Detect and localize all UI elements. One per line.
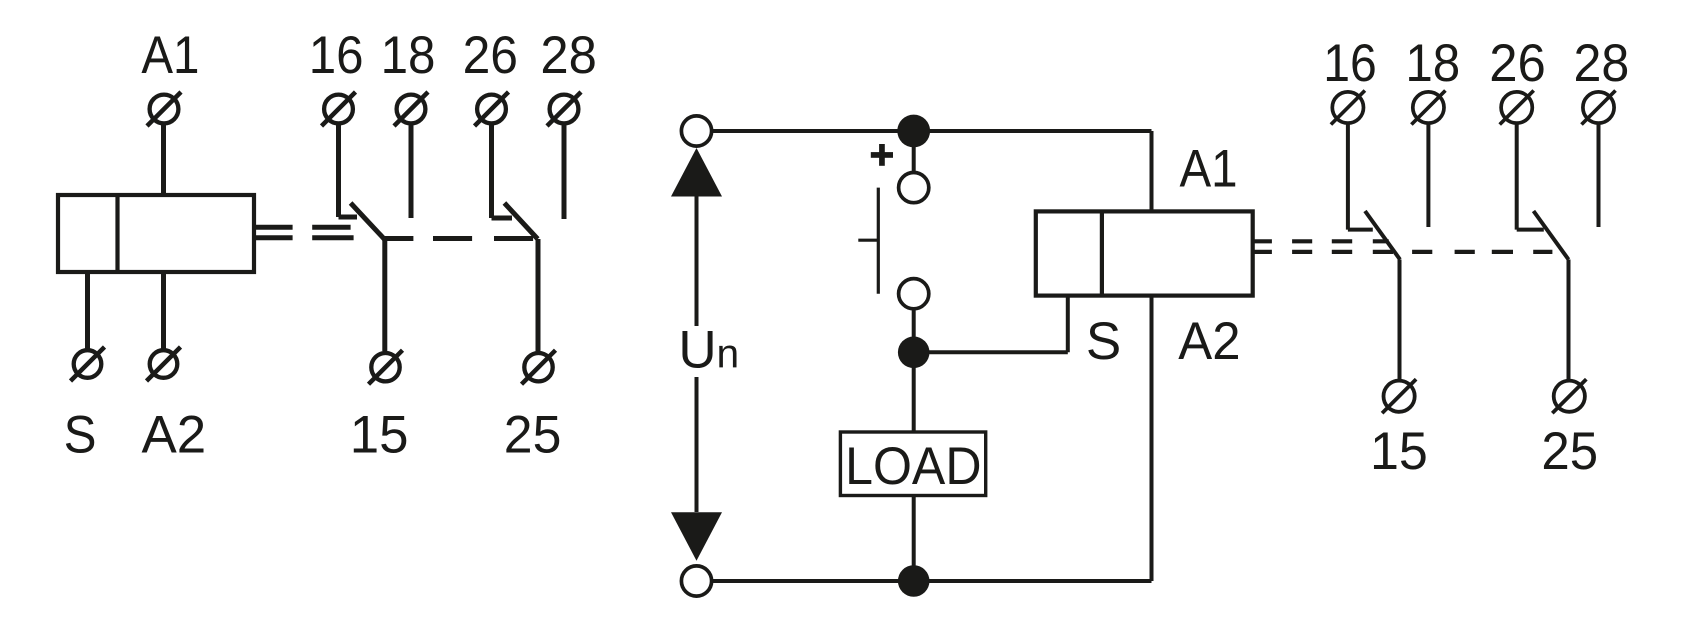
svg-text:18: 18 xyxy=(1405,34,1460,93)
svg-text:16: 16 xyxy=(309,26,364,85)
svg-text:25: 25 xyxy=(1541,422,1598,481)
svg-text:28: 28 xyxy=(540,26,596,85)
svg-text:A1: A1 xyxy=(141,26,199,85)
svg-text:S: S xyxy=(1086,312,1121,371)
svg-text:25: 25 xyxy=(504,406,562,465)
svg-text:A2: A2 xyxy=(141,406,206,465)
svg-text:16: 16 xyxy=(1323,34,1377,93)
svg-text:26: 26 xyxy=(1489,34,1546,93)
svg-text:A2: A2 xyxy=(1178,312,1240,371)
svg-text:18: 18 xyxy=(381,26,436,85)
svg-text:S: S xyxy=(64,406,97,465)
svg-text:26: 26 xyxy=(463,26,518,85)
svg-text:LOAD: LOAD xyxy=(845,437,981,496)
svg-text:15: 15 xyxy=(350,406,409,465)
svg-text:28: 28 xyxy=(1573,34,1629,93)
svg-text:15: 15 xyxy=(1370,422,1428,481)
svg-text:A1: A1 xyxy=(1179,140,1237,199)
svg-text:U: U xyxy=(678,321,716,380)
